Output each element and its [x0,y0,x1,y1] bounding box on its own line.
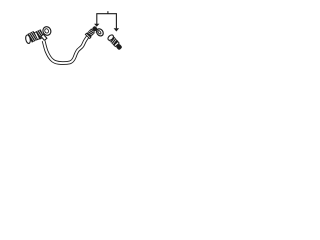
ring clamp on left fitting [42,25,53,36]
wire: hose tube [44,37,88,63]
node: arrow pointing to connector [114,28,120,31]
left end fitting [25,29,47,44]
connector fitting (separate part, right) [107,34,123,51]
node: arrow pointing to hose end [94,24,99,27]
wire: callout leader bracket [97,11,117,28]
upper hose end ferrule [85,25,98,38]
O-ring at hose end [95,28,104,38]
